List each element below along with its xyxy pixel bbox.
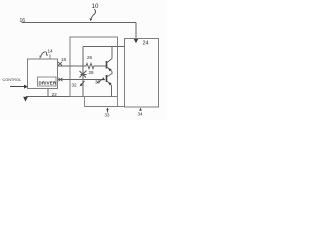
svg-text:CONTROL: CONTROL xyxy=(3,78,22,82)
svg-text:26: 26 xyxy=(87,55,93,60)
svg-text:14: 14 xyxy=(48,49,54,54)
svg-text:18: 18 xyxy=(61,57,67,62)
svg-text:34: 34 xyxy=(138,112,144,117)
svg-text:10: 10 xyxy=(92,3,99,10)
svg-text:30: 30 xyxy=(95,80,101,85)
svg-text:DRIVER: DRIVER xyxy=(39,81,57,86)
svg-text:22: 22 xyxy=(52,92,58,98)
svg-text:28: 28 xyxy=(89,70,95,75)
svg-text:24: 24 xyxy=(143,41,149,47)
svg-text:33: 33 xyxy=(105,113,110,118)
svg-text:32: 32 xyxy=(72,83,78,88)
svg-text:16: 16 xyxy=(20,18,26,24)
